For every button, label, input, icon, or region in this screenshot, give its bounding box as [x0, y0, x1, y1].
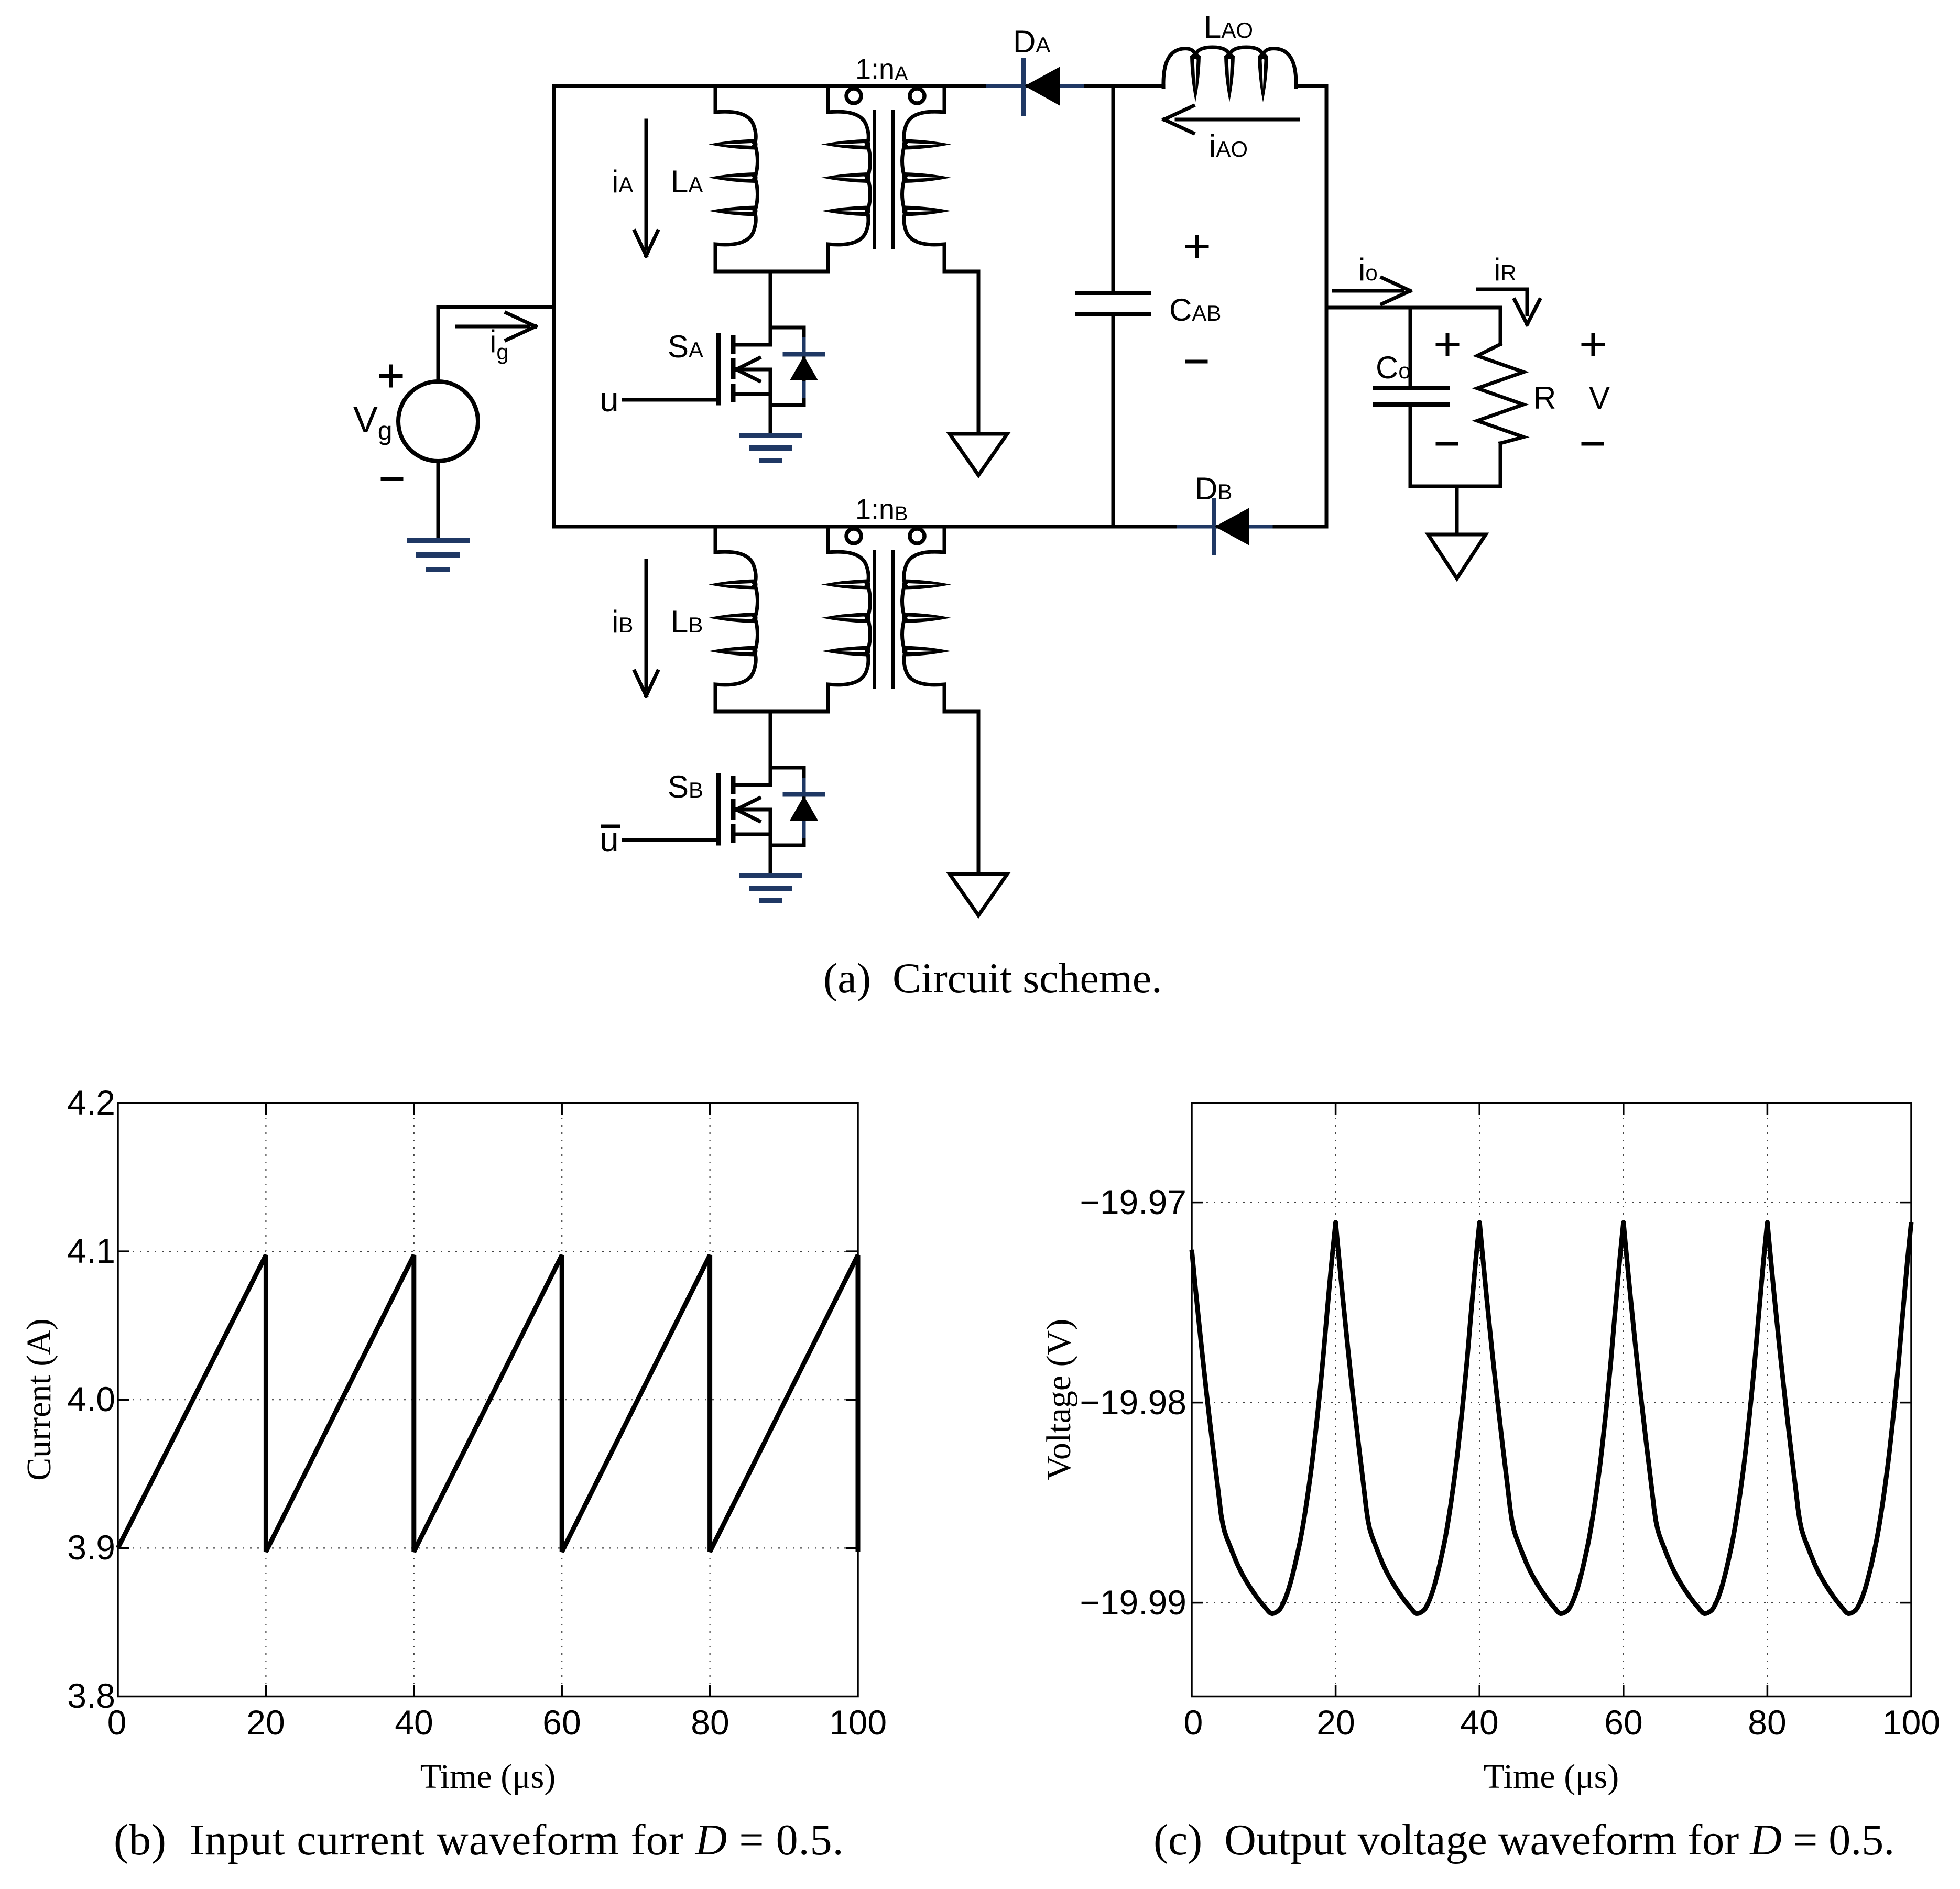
transformer A secondary winding leaf 1: [902, 139, 952, 150]
transformer B primary winding leaf 2: [821, 613, 870, 623]
plot (c) output voltage curve: [1192, 1222, 1911, 1614]
transformer B secondary winding leaf 3: [902, 646, 952, 657]
transistor SA channel dashes: [731, 335, 736, 402]
transformer B LB winding leaf 1: [709, 580, 758, 590]
svg-text:Time (μs): Time (μs): [420, 1757, 556, 1796]
body diode SA triangle: [790, 356, 818, 380]
wire transformer B primary bottom: [715, 710, 828, 714]
wire bottom rail (node B): [554, 525, 1326, 529]
voltage source Vg circle: [398, 381, 478, 461]
transistor SB drain contact: [733, 783, 770, 787]
diode DA cathode bar: [1021, 60, 1026, 114]
diode DB cathode bar: [1212, 500, 1216, 553]
current arrow iA: [635, 121, 658, 256]
plot (c) y tick labels: [1080, 1183, 1186, 1622]
transformer B polarity dot secondary: [910, 529, 924, 543]
current arrow iB: [635, 561, 658, 696]
svg-text:Time (μs): Time (μs): [1484, 1757, 1619, 1796]
wire Vg to input bus: [438, 305, 554, 309]
plot (b) y tick labels: [67, 1083, 115, 1715]
wire transformer B secondary bottom: [944, 710, 978, 714]
plus sign V: [1583, 335, 1603, 354]
transformer B primary winding leaf 1: [821, 580, 870, 590]
svg-text:0: 0: [1184, 1703, 1203, 1742]
wire SA body diode bottom jog: [770, 403, 804, 407]
plot (b) gridlines horizontal: [118, 1251, 858, 1548]
svg-text:Current (A): Current (A): [20, 1318, 58, 1481]
svg-text:−19.97: −19.97: [1080, 1183, 1186, 1221]
wire output node horizontal: [1326, 306, 1500, 310]
wire transformer A secondary to ground: [977, 271, 981, 434]
plot (b) axes box: [118, 1103, 858, 1697]
svg-text:u: u: [600, 380, 619, 419]
transformer B secondary winding leaf 2: [902, 613, 952, 623]
transformer A LA winding leaf 2: [709, 172, 758, 183]
svg-text:0: 0: [107, 1703, 127, 1742]
transformer B LB winding leaf 3: [709, 646, 758, 657]
wire SA drain jog to body diode: [770, 326, 804, 330]
inductor LAO leaf 3: [1258, 54, 1268, 103]
transistor SB gate lead: [624, 838, 718, 842]
body diode SB navy lead overlay: [802, 778, 806, 838]
svg-text:60: 60: [542, 1703, 581, 1742]
transistor SB body arrow: [736, 798, 770, 821]
minus sign Vg: [383, 477, 401, 481]
transformer A LA winding leaf 1: [709, 139, 758, 150]
current arrow iR: [1478, 289, 1540, 324]
minus sign CAB: [1187, 360, 1206, 364]
svg-text:V: V: [1589, 380, 1610, 416]
svg-text:40: 40: [395, 1703, 433, 1742]
resistor R bottom lead: [1499, 443, 1502, 486]
diode DB triangle: [1215, 508, 1249, 545]
capacitor Co plates: [1375, 388, 1448, 405]
capacitor Co top lead: [1409, 308, 1412, 388]
svg-text:80: 80: [1748, 1703, 1786, 1742]
wire SA drain tap: [769, 271, 772, 345]
body diode SB lead: [802, 768, 806, 845]
minus sign Co: [1438, 442, 1456, 446]
plot (c) x tick labels: [1184, 1703, 1940, 1742]
ground triangle transformer A secondary: [950, 434, 1007, 475]
ground below SA: [742, 435, 799, 461]
resistor R zigzag: [1477, 344, 1523, 443]
transformer B ideal primary winding: [828, 527, 868, 584]
body diode SA cathode bar: [785, 352, 823, 357]
plus sign Co: [1438, 335, 1457, 354]
svg-text:20: 20: [246, 1703, 285, 1742]
transformer A magnetizing inductor LA winding: [715, 86, 756, 144]
diode DB navy wire overlay: [1179, 525, 1271, 529]
transformer B magnetizing inductor LB winding: [715, 527, 756, 584]
wire top rail right segment to output corner: [1296, 84, 1326, 88]
minus sign V: [1583, 442, 1602, 446]
resistor R top lead: [1499, 308, 1502, 344]
transformer B primary winding leaf 3: [821, 646, 870, 657]
svg-text:80: 80: [691, 1703, 729, 1742]
inductor LAO winding: [1163, 49, 1195, 87]
wire top rail left segment (node A top): [554, 84, 1163, 88]
wire right vertical (DA/LAO node down to DB rail): [1325, 86, 1329, 527]
svg-text:40: 40: [1460, 1703, 1498, 1742]
svg-text:(c) Output voltage waveform f: (c) Output voltage waveform for D = 0.5.: [1153, 1816, 1894, 1864]
transformer A primary winding leaf 2: [821, 172, 870, 183]
wire load ground stub: [1455, 486, 1459, 534]
body diode SB triangle: [790, 796, 818, 821]
transistor SA body arrow: [736, 358, 770, 381]
current arrow io: [1334, 278, 1410, 304]
inductor LAO leaf 2: [1224, 54, 1235, 103]
body diode SA navy lead overlay: [802, 337, 806, 398]
wire load bottom: [1410, 485, 1500, 488]
plot (c) gridlines vertical: [1336, 1103, 1768, 1697]
transformer A core: [873, 112, 876, 247]
svg-text:4.2: 4.2: [67, 1083, 115, 1122]
wire SB drain tap: [769, 712, 772, 785]
overbar of u-bar: [601, 825, 620, 828]
ground triangle load: [1428, 534, 1486, 578]
transformer B secondary winding leaf 1: [902, 580, 952, 590]
body diode SA lead: [802, 327, 806, 405]
transformer A primary winding leaf 1: [821, 139, 870, 150]
transistor SA gate bar: [716, 335, 721, 403]
wire SB source to ground: [769, 834, 772, 876]
plot (b) input current sawtooth curve: [118, 1255, 858, 1552]
capacitor CAB bottom lead: [1112, 314, 1115, 527]
capacitor CAB top lead: [1112, 86, 1115, 293]
plot (c) axes box: [1192, 1103, 1911, 1697]
wire Vg bottom lead: [437, 461, 440, 540]
svg-text:(a) Circuit scheme.: (a) Circuit scheme.: [823, 954, 1162, 1002]
transformer B LB winding leaf 2: [709, 613, 758, 623]
transistor SA source contact: [733, 392, 770, 396]
transistor SA gate lead: [624, 398, 718, 402]
plot (b) gridlines vertical: [266, 1103, 710, 1697]
svg-text:−19.98: −19.98: [1080, 1383, 1186, 1422]
ground below Vg: [409, 540, 467, 570]
wire SB drain jog to body diode: [770, 766, 804, 770]
svg-text:3.9: 3.9: [67, 1528, 115, 1567]
transistor SA body-source link: [769, 369, 772, 394]
wire SA source to ground: [769, 394, 772, 435]
inductor LAO leaf 1: [1190, 54, 1201, 103]
plus sign Vg: [381, 366, 401, 386]
svg-text:100: 100: [829, 1703, 887, 1742]
current arrow iAO: [1164, 106, 1298, 133]
svg-text:−19.99: −19.99: [1080, 1583, 1186, 1622]
ground triangle transformer B secondary: [950, 874, 1007, 915]
plot (b) x tick labels: [107, 1703, 887, 1742]
transformer A secondary winding: [904, 86, 944, 144]
wire left vertical (input bus): [552, 86, 556, 527]
transformer A primary winding leaf 3: [821, 206, 870, 216]
wire transformer B secondary to ground: [977, 712, 981, 874]
svg-text:4.0: 4.0: [67, 1380, 115, 1418]
transformer B core: [873, 552, 876, 687]
transformer A polarity dot secondary: [910, 89, 924, 103]
current arrow ig: [457, 313, 536, 340]
body diode SB cathode bar: [785, 792, 823, 797]
transformer A secondary winding leaf 2: [902, 172, 952, 183]
transformer B secondary winding: [904, 527, 944, 584]
plot (c) axis ticks: [1192, 1103, 1911, 1697]
transformer B polarity dot primary: [846, 529, 861, 543]
svg-text:20: 20: [1316, 1703, 1355, 1742]
transistor SB source contact: [733, 833, 770, 836]
transistor SA drain contact: [733, 343, 770, 347]
svg-text:100: 100: [1882, 1703, 1940, 1742]
svg-text:4.1: 4.1: [67, 1231, 115, 1270]
ground below SB: [742, 876, 799, 901]
transistor SB channel dashes: [731, 776, 736, 843]
transformer A secondary winding leaf 3: [902, 206, 952, 216]
capacitor Co bottom lead: [1409, 405, 1412, 486]
plot (b) axis ticks: [118, 1103, 858, 1697]
wire SB body diode bottom jog: [770, 844, 804, 847]
plus sign CAB: [1187, 237, 1207, 256]
svg-text:R: R: [1533, 380, 1556, 416]
wire transformer A primary bottom: [715, 270, 828, 274]
transformer A LA winding leaf 3: [709, 206, 758, 216]
transformer A polarity dot primary: [846, 89, 861, 103]
plot (c) gridlines horizontal: [1192, 1203, 1911, 1603]
wire Vg top lead: [437, 307, 440, 381]
transistor SB body-source link: [769, 810, 772, 834]
diode DA navy wire overlay: [988, 84, 1082, 88]
svg-text:60: 60: [1604, 1703, 1642, 1742]
capacitor CAB plates: [1077, 293, 1149, 314]
transformer A ideal primary winding: [828, 86, 868, 144]
svg-text:(b) Input current waveform fo: (b) Input current waveform for D = 0.5.: [114, 1816, 844, 1864]
diode DA triangle: [1025, 67, 1060, 106]
transistor SB gate bar: [716, 776, 721, 843]
wire transformer A secondary bottom: [944, 270, 978, 274]
svg-text:Voltage (V): Voltage (V): [1040, 1319, 1078, 1481]
